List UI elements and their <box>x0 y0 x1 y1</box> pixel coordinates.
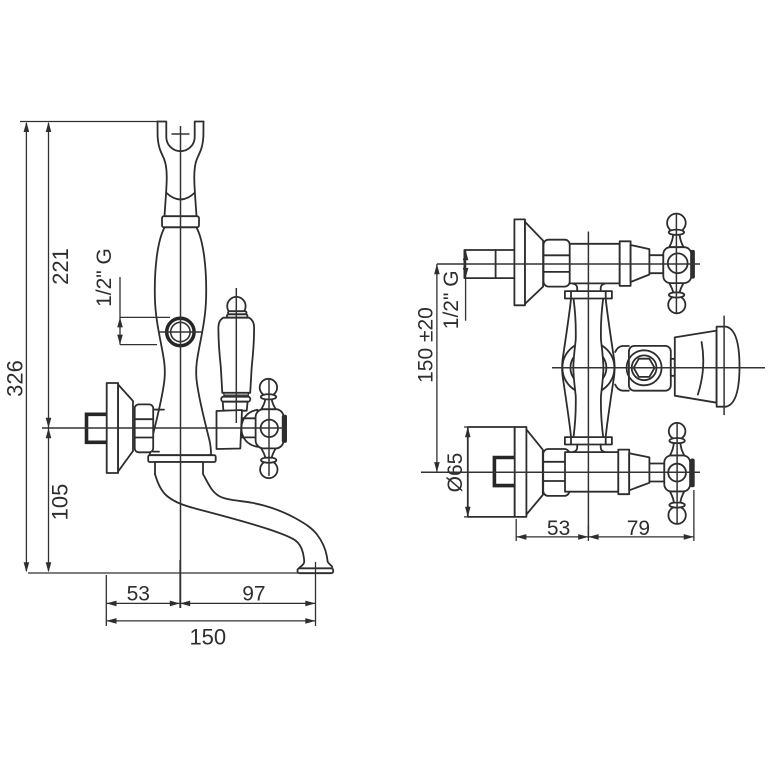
cross-handle valve bonnet <box>217 410 243 449</box>
svg-text:221: 221 <box>48 248 73 285</box>
column collar <box>162 216 199 227</box>
valve body edge stubs at bell <box>153 410 164 452</box>
svg-text:Ø65: Ø65 <box>444 453 467 493</box>
svg-text:1/2" G: 1/2" G <box>440 270 463 329</box>
hub <box>663 247 691 283</box>
cross handle hub <box>256 409 284 448</box>
top cross handle <box>663 214 695 314</box>
diverter block <box>615 327 739 407</box>
dims 53 / 79 <box>516 490 694 541</box>
1/2 G boss circle <box>167 318 194 345</box>
handle skirt dome <box>241 410 257 447</box>
dim 150 +-20 <box>436 264 438 472</box>
dim 1/2" G top pipe <box>465 250 467 321</box>
svg-text:53: 53 <box>127 582 150 605</box>
fork column top (diverter outlet) <box>158 122 204 217</box>
column flanges <box>565 291 612 444</box>
column face band <box>562 299 614 438</box>
upper spoke ball <box>667 214 686 233</box>
column body + bell <box>150 227 211 455</box>
dim 1/2" G at boss <box>120 277 170 345</box>
top spoke ball <box>260 379 277 409</box>
svg-text:53: 53 <box>547 517 570 540</box>
neck to hub <box>242 418 257 437</box>
svg-text:326: 326 <box>2 360 27 397</box>
bottom dims 53 / 97 <box>106 560 315 626</box>
wall escutcheon plate <box>107 383 133 473</box>
extension lines <box>20 121 163 123</box>
svg-text:97: 97 <box>242 582 265 605</box>
outer silhouette curves <box>562 299 571 438</box>
bottom spoke ball <box>260 448 277 478</box>
upper spoke ball <box>669 423 686 440</box>
centerlines right view <box>421 213 765 537</box>
svg-text:150 ±20: 150 ±20 <box>415 307 438 383</box>
bottom cross handle <box>664 423 694 524</box>
svg-text:105: 105 <box>47 484 72 521</box>
svg-text:79: 79 <box>627 517 650 540</box>
centerlines <box>42 126 287 608</box>
svg-text:150: 150 <box>189 625 226 650</box>
top valve body <box>566 241 663 286</box>
bottom connection: outer box <box>468 427 570 517</box>
mid column boss circles (behind column face) <box>562 342 614 394</box>
dim 150 <box>106 620 315 622</box>
dim 326 <box>25 123 27 571</box>
spout <box>155 474 333 573</box>
top escutcheon + nut + pipe <box>464 219 569 305</box>
column necks <box>573 284 605 452</box>
svg-text:1/2" G: 1/2" G <box>93 248 116 307</box>
valve body (behind column bell) <box>152 410 176 452</box>
hex nut <box>135 404 154 452</box>
lower spoke ball <box>668 507 685 524</box>
hub <box>664 456 690 492</box>
dim Ø65 <box>464 427 468 517</box>
handle front ball (black) <box>282 415 287 443</box>
lever handle (porcelain grip) <box>218 297 254 411</box>
dim 221 / 105 <box>48 123 50 571</box>
base flange + base cylinder <box>148 455 216 474</box>
lower spoke ball <box>668 296 685 313</box>
threaded pipe (bold) <box>87 414 109 442</box>
bottom valve body <box>565 450 664 495</box>
